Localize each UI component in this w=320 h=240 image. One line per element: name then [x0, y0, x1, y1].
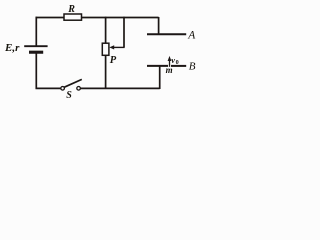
wire top-left segment [36, 17, 65, 19]
svg-text:0: 0 [176, 59, 179, 66]
particle m velocity arrow v0 [168, 55, 179, 67]
plate B [147, 61, 196, 73]
wire plate B bottom lead [159, 66, 161, 89]
particle m label [166, 65, 173, 75]
wire switch to bottom-right corner [81, 87, 160, 89]
wire wiper branch vertical [123, 17, 125, 48]
wire plate A feed vertical [158, 17, 160, 34]
wire potentiometer top lead [105, 17, 107, 44]
switch S [61, 79, 82, 101]
potentiometer P body [102, 43, 117, 66]
wire battery bottom lead [35, 53, 37, 89]
svg-text:P: P [110, 55, 117, 66]
svg-text:R: R [67, 4, 75, 15]
svg-text:A: A [187, 30, 196, 42]
resistor R [64, 4, 82, 20]
svg-text:S: S [66, 90, 72, 101]
potentiometer wiper arrow [109, 45, 124, 49]
battery E,r [4, 42, 48, 54]
wire bottom-left to switch [36, 87, 61, 89]
wire left vertical (battery top lead) [35, 17, 37, 46]
svg-text:E,r: E,r [4, 42, 20, 54]
wire potentiometer bottom lead [105, 55, 107, 89]
svg-text:B: B [189, 61, 196, 73]
svg-text:m: m [166, 65, 173, 75]
wire top-middle-right segment [82, 17, 159, 19]
plate A [147, 30, 196, 42]
